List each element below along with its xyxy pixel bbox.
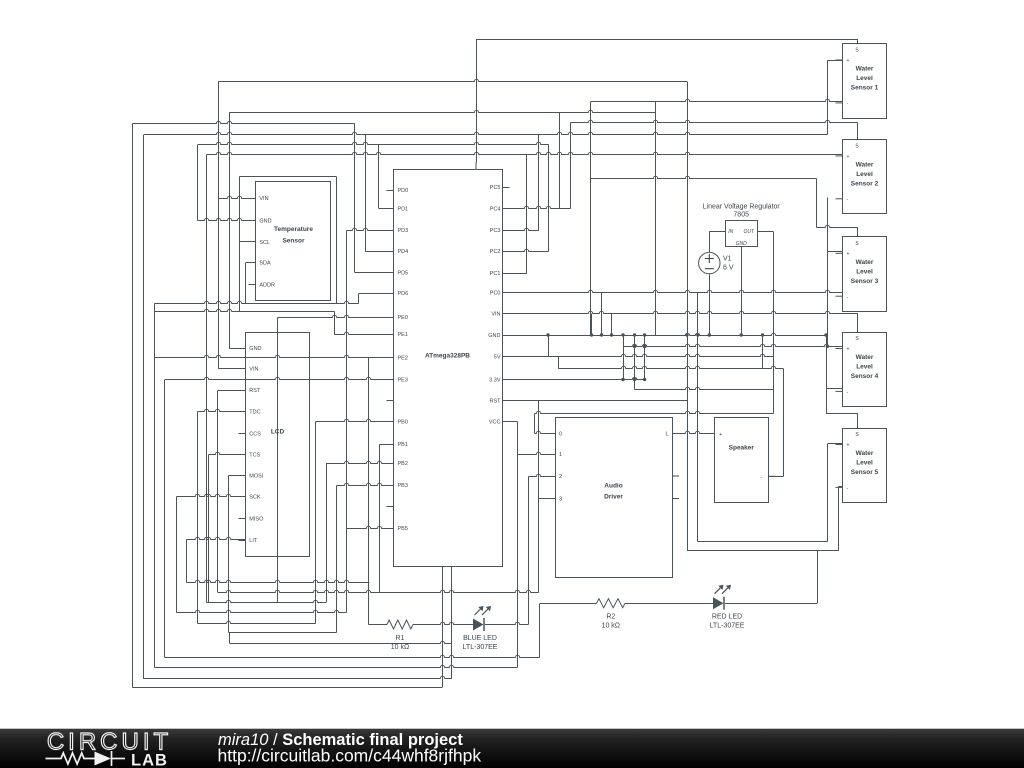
svg-text:PC0: PC0 <box>490 290 501 296</box>
svg-text:6 V: 6 V <box>723 265 734 272</box>
svg-text:7805: 7805 <box>733 212 749 219</box>
svg-text:VIN: VIN <box>259 196 268 202</box>
svg-text:Driver: Driver <box>604 494 623 501</box>
svg-text:10 kΩ: 10 kΩ <box>391 644 409 651</box>
svg-text:Water: Water <box>856 66 874 73</box>
svg-text:1: 1 <box>559 452 562 458</box>
svg-text:10 kΩ: 10 kΩ <box>602 623 620 630</box>
svg-text:PD0: PD0 <box>398 188 409 194</box>
svg-text:Sensor 2: Sensor 2 <box>851 180 879 187</box>
svg-text:PC5: PC5 <box>490 185 501 191</box>
svg-text:-: - <box>761 475 763 481</box>
svg-text:Water: Water <box>856 161 874 168</box>
svg-text:Level: Level <box>856 75 873 82</box>
svg-text:Water: Water <box>856 259 874 266</box>
svg-text:2: 2 <box>559 474 562 480</box>
svg-text:Level: Level <box>856 364 873 371</box>
svg-text:RST: RST <box>249 388 261 394</box>
svg-text:+: + <box>847 58 850 64</box>
svg-text:LTL-307EE: LTL-307EE <box>710 623 745 630</box>
svg-text:PB5: PB5 <box>398 526 408 532</box>
svg-text:GND: GND <box>259 218 271 224</box>
svg-text:ATmega328PB: ATmega328PB <box>425 353 470 360</box>
svg-text:Linear Voltage Regulator: Linear Voltage Regulator <box>703 204 781 211</box>
svg-text:+: + <box>847 154 850 160</box>
svg-text:VIN: VIN <box>491 311 500 317</box>
svg-text:Water: Water <box>856 354 874 361</box>
svg-text:Sensor 5: Sensor 5 <box>851 469 879 476</box>
svg-text:PB2: PB2 <box>398 461 408 467</box>
svg-text:PD6: PD6 <box>398 291 409 297</box>
svg-text:Sensor 1: Sensor 1 <box>851 85 879 92</box>
svg-text:PC2: PC2 <box>490 249 501 255</box>
svg-text:PE2: PE2 <box>398 356 408 362</box>
svg-text:Sensor: Sensor <box>282 238 305 245</box>
svg-text:LIT: LIT <box>249 538 258 544</box>
svg-text:3.3V: 3.3V <box>489 377 501 383</box>
svg-text:+: + <box>847 251 850 257</box>
svg-text:LCD: LCD <box>271 429 285 436</box>
svg-text:V1: V1 <box>723 256 732 263</box>
svg-text:+: + <box>719 432 722 438</box>
svg-text:BLUE LED: BLUE LED <box>463 635 497 642</box>
svg-text:RST: RST <box>490 398 502 404</box>
svg-text:PB3: PB3 <box>398 483 408 489</box>
svg-text:+: + <box>847 443 850 449</box>
svg-text:3: 3 <box>559 496 562 502</box>
svg-text:PC4: PC4 <box>490 206 501 212</box>
svg-text:TCS: TCS <box>249 452 260 458</box>
svg-text:0: 0 <box>559 431 562 437</box>
svg-text:IN: IN <box>728 229 733 235</box>
svg-text:MOSI: MOSI <box>249 474 264 480</box>
svg-text:+: + <box>847 347 850 353</box>
svg-text:Temperature: Temperature <box>274 226 313 233</box>
svg-text:SCL: SCL <box>259 240 270 246</box>
svg-text:GND: GND <box>249 346 261 352</box>
svg-text:L: L <box>665 431 668 437</box>
svg-text:PD4: PD4 <box>398 249 409 255</box>
svg-text:http://circuitlab.com/c44whf8r: http://circuitlab.com/c44whf8rjfhpk <box>218 746 482 766</box>
svg-text:GND: GND <box>488 333 500 339</box>
svg-text:PB0: PB0 <box>398 419 408 425</box>
svg-text:PC3: PC3 <box>490 228 501 234</box>
svg-text:PC1: PC1 <box>490 271 501 277</box>
svg-text:Level: Level <box>856 171 873 178</box>
svg-text:OUT: OUT <box>743 229 755 235</box>
svg-text:PB1: PB1 <box>398 442 408 448</box>
svg-text:PE0: PE0 <box>398 315 408 321</box>
svg-text:Water: Water <box>856 450 874 457</box>
svg-text:LTL-307EE: LTL-307EE <box>463 644 498 651</box>
svg-text:Speaker: Speaker <box>729 445 755 452</box>
svg-text:SDA: SDA <box>259 260 271 266</box>
svg-text:VIN: VIN <box>249 366 258 372</box>
svg-text:R1: R1 <box>396 635 405 642</box>
svg-text:PE1: PE1 <box>398 332 408 338</box>
svg-text:Level: Level <box>856 460 873 467</box>
svg-text:TDC: TDC <box>249 410 260 416</box>
svg-text:CCS: CCS <box>249 431 261 437</box>
svg-text:Level: Level <box>856 268 873 275</box>
svg-text:PE3: PE3 <box>398 377 408 383</box>
svg-text:PD1: PD1 <box>398 206 409 212</box>
svg-text:Audio: Audio <box>604 483 622 490</box>
svg-text:MISO: MISO <box>249 516 264 522</box>
svg-text:RED LED: RED LED <box>712 614 742 621</box>
svg-text:PD3: PD3 <box>398 228 409 234</box>
svg-text:ADDR: ADDR <box>259 282 275 288</box>
svg-text:VCC: VCC <box>489 419 501 425</box>
svg-text:R2: R2 <box>606 614 615 621</box>
svg-text:LAB: LAB <box>131 752 168 768</box>
svg-text:PD5: PD5 <box>398 270 409 276</box>
svg-text:Sensor 4: Sensor 4 <box>851 373 879 380</box>
svg-text:GND: GND <box>736 241 748 247</box>
svg-text:5V: 5V <box>494 354 501 360</box>
svg-text:SCK: SCK <box>249 495 261 501</box>
svg-text:Sensor 3: Sensor 3 <box>851 278 879 285</box>
